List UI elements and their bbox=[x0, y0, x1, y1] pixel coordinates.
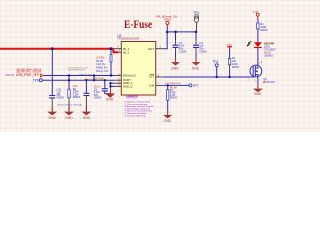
junction bbox=[195, 31, 198, 34]
ground for IC bbox=[110, 88, 112, 93]
svg-text:C0603: C0603 bbox=[94, 97, 102, 100]
wire VOUT rail bbox=[167, 31, 197, 33]
transistor Q2 bbox=[250, 65, 262, 77]
svg-text:GND: GND bbox=[49, 116, 57, 120]
wire: main input red rail bbox=[0, 48, 113, 50]
svg-text:R0603: R0603 bbox=[73, 96, 81, 99]
svg-text:GND: GND bbox=[106, 97, 114, 101]
svg-text:C1206: C1206 bbox=[179, 51, 187, 54]
capacitor C9 chain (DVDT) bbox=[104, 80, 106, 88]
capacitor C41 bbox=[49, 96, 55, 98]
junction bbox=[109, 85, 111, 87]
junction bbox=[110, 74, 112, 76]
wire OUT up to rail bbox=[163, 32, 167, 49]
junction bbox=[110, 47, 113, 50]
svg-text:GND: GND bbox=[171, 67, 179, 71]
resistor R3 chain bbox=[110, 49, 112, 55]
ground for Q2 bbox=[257, 85, 259, 88]
resistor R6 bbox=[68, 89, 70, 98]
capacitor C41 chain wire from input rail bbox=[51, 49, 53, 95]
ground for C9 and IC bbox=[105, 94, 115, 98]
svg-text:LED0603: LED0603 bbox=[264, 56, 274, 58]
svg-text:Features:: Features: bbox=[126, 94, 139, 98]
capacitor C3 bbox=[175, 32, 177, 40]
junction bbox=[216, 76, 218, 78]
IC GND wires bbox=[110, 83, 112, 88]
svg-text:FLT: FLT bbox=[149, 74, 154, 78]
capacitor C9 bbox=[102, 89, 108, 91]
ground for C10 bbox=[85, 106, 87, 112]
junction bbox=[104, 79, 106, 81]
svg-text:OUT: OUT bbox=[148, 47, 154, 51]
svg-text:Vf=2.0V: Vf=2.0V bbox=[264, 53, 271, 55]
svg-text:GND_2: GND_2 bbox=[123, 84, 133, 88]
junction bbox=[93, 79, 95, 81]
capacitor C4 bbox=[195, 32, 197, 40]
resistor R7 bbox=[167, 90, 169, 100]
wire: EN net horizontal bbox=[44, 75, 114, 77]
resistor R4 bbox=[228, 59, 230, 65]
junction bbox=[109, 82, 111, 84]
resistor R6 chain bbox=[68, 76, 70, 90]
junction bbox=[68, 74, 70, 76]
LED arrows bbox=[248, 41, 251, 43]
svg-text:C0603: C0603 bbox=[199, 51, 207, 54]
wire: EN to DVDT vertical tie bbox=[93, 76, 95, 81]
svg-text:R0603: R0603 bbox=[170, 96, 178, 99]
svg-text:TPS259531DSGR: TPS259531DSGR bbox=[117, 37, 139, 41]
svg-text:Delay=12.5ms: Delay=12.5ms bbox=[79, 74, 92, 76]
svg-text:Rising 4.3V: Rising 4.3V bbox=[96, 70, 108, 73]
ground for R6 bbox=[68, 106, 70, 112]
svg-text:TP4: TP4 bbox=[212, 60, 218, 64]
svg-text:GND: GND bbox=[164, 119, 172, 123]
wire ILM net bbox=[163, 84, 189, 86]
ground for C41 bbox=[51, 106, 53, 112]
wire: TP6/DVDT net horizontal bbox=[42, 79, 114, 81]
svg-text:NTR4123,215: NTR4123,215 bbox=[265, 81, 275, 84]
pin labels bbox=[123, 47, 155, 89]
ground for C3 bbox=[175, 58, 177, 62]
svg-text:GND: GND bbox=[192, 67, 200, 71]
capacitor C10 chain bbox=[85, 80, 87, 93]
svg-text:GND: GND bbox=[254, 92, 262, 96]
pin stubs bbox=[114, 49, 164, 87]
svg-text:USB_PWR_OFF: USB_PWR_OFF bbox=[16, 73, 39, 77]
junction bbox=[174, 31, 177, 34]
svg-text:EN/UVLO: EN/UVLO bbox=[123, 74, 136, 78]
junction bbox=[93, 74, 95, 76]
junction bbox=[228, 76, 230, 78]
wire FLT net bbox=[163, 76, 250, 78]
svg-text:GND: GND bbox=[83, 116, 91, 120]
svg-text:C0603: C0603 bbox=[57, 97, 65, 100]
capacitor C10 bbox=[83, 93, 89, 95]
resistor R2 bbox=[257, 23, 259, 29]
svg-text:TP6: TP6 bbox=[33, 78, 39, 82]
svg-text:IN_2: IN_2 bbox=[123, 50, 129, 54]
svg-text:E-Fuse: E-Fuse bbox=[124, 19, 152, 31]
svg-text:TP7: TP7 bbox=[193, 84, 199, 88]
LED LED1 bbox=[254, 42, 262, 47]
junction bbox=[167, 84, 169, 86]
junction on rail bbox=[51, 47, 54, 50]
port arrow bbox=[40, 74, 43, 77]
ground for C4 bbox=[195, 58, 197, 62]
svg-text:ILM: ILM bbox=[149, 84, 154, 88]
junction bbox=[68, 79, 70, 81]
svg-text:LTST-C191KRKT: LTST-C191KRKT bbox=[264, 49, 276, 52]
svg-text:(UVLO: 4.5V rise / 3.9V fall): (UVLO: 4.5V rise / 3.9V fall) bbox=[58, 104, 82, 107]
svg-text:*) Reverse blocking: *) Reverse blocking bbox=[124, 114, 146, 117]
ground for R7 bbox=[167, 111, 169, 115]
IC U3 box bbox=[121, 42, 155, 96]
port TP7 bbox=[189, 84, 192, 87]
svg-text:GND: GND bbox=[65, 116, 73, 120]
junction bbox=[166, 31, 169, 34]
junction bbox=[85, 79, 87, 81]
svg-text:(PG 5): (PG 5) bbox=[6, 73, 15, 77]
svg-text:R0603: R0603 bbox=[232, 66, 240, 69]
resistor R7 chain bbox=[167, 85, 169, 89]
svg-text:R0603: R0603 bbox=[261, 29, 269, 32]
wire: red drop to IN_2 bbox=[113, 49, 118, 53]
resistor R3 bbox=[110, 55, 112, 62]
svg-text:Typ=3.9V Hyst=0.4V: Typ=3.9V Hyst=0.4V bbox=[68, 69, 86, 72]
pin numbers bbox=[117, 45, 161, 86]
svg-text:VIN2: VIN2 bbox=[164, 17, 171, 21]
